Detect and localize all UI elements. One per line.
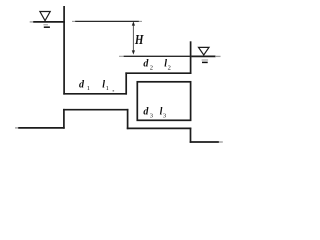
svg-text:2: 2 — [150, 65, 153, 72]
svg-text:1: 1 — [106, 85, 109, 92]
svg-text:H: H — [134, 33, 144, 48]
svg-text:2: 2 — [168, 65, 171, 72]
svg-text:1: 1 — [87, 85, 90, 92]
svg-text:3: 3 — [150, 112, 153, 119]
svg-text:3: 3 — [163, 112, 166, 119]
